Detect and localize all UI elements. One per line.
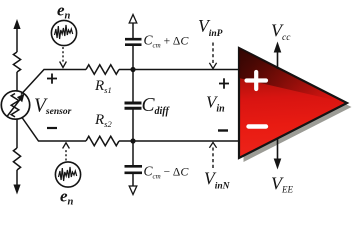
resistor R_s1 <box>86 65 119 75</box>
wire R_s1 to opamp <box>119 69 238 71</box>
svg-text:en: en <box>57 1 71 22</box>
op-amp top bevel shading <box>239 48 347 103</box>
sensor diagonal arrow <box>7 98 22 117</box>
svg-text:VinN: VinN <box>204 169 231 192</box>
svg-text:Ccm + ΔC: Ccm + ΔC <box>144 33 190 50</box>
noise source top circle <box>51 20 76 45</box>
center rail between C_diff and bottom cap <box>132 110 134 166</box>
op-amp U1 red triangle <box>239 48 347 158</box>
svg-text:Rs2: Rs2 <box>94 112 112 129</box>
op-amp shadow <box>244 53 352 163</box>
capacitor C_cm+dC top <box>125 38 142 41</box>
resistor R_s2 <box>86 136 119 146</box>
wire R_s2 to opamp <box>119 140 238 142</box>
white plus on op-amp <box>247 72 267 89</box>
center rail between top cap and C_diff <box>132 46 134 102</box>
noise waveform top <box>55 25 73 39</box>
center rail top segment <box>132 23 134 39</box>
label noise plus <box>47 74 57 84</box>
svg-text:en: en <box>60 187 74 206</box>
svg-text:Cdiff: Cdiff <box>142 95 171 117</box>
center rail bottom segment <box>132 174 134 187</box>
sensor internal zigzag <box>11 94 19 117</box>
svg-text:Vcc: Vcc <box>271 21 291 44</box>
svg-text:Vin: Vin <box>206 93 225 115</box>
capacitor C_cm-dC bottom <box>125 165 143 168</box>
noise waveform bottom <box>59 167 77 181</box>
node junction top <box>130 67 135 72</box>
white minus on op-amp <box>249 124 267 128</box>
sensor circle V_sensor <box>1 91 29 119</box>
label noise minus <box>47 127 57 129</box>
wire to bottom arrow <box>16 170 18 185</box>
label input minus <box>218 129 228 131</box>
dashed arrow V_inN <box>212 148 214 169</box>
resistor left-top vertical zigzag <box>13 52 20 72</box>
arrow down at bottom of left rail <box>13 185 20 195</box>
wire left rail top segment <box>16 28 18 52</box>
dashed arrow V_inP <box>212 43 214 64</box>
capacitor C_diff <box>125 102 142 105</box>
node junction bottom <box>130 138 135 143</box>
svg-text:Vsensor: Vsensor <box>34 96 72 118</box>
arrow Vee <box>277 138 279 159</box>
wire diagonal sensor to plus rail <box>21 70 86 95</box>
wire rail to sensor <box>16 72 18 91</box>
svg-text:VEE: VEE <box>271 174 293 195</box>
wire left rail below sensor <box>16 119 18 148</box>
arrow Vcc <box>274 42 282 170</box>
svg-text:VinP: VinP <box>198 16 223 39</box>
open arrow down center rail <box>129 186 137 195</box>
dashed arrow from bottom noise to wire <box>65 148 67 161</box>
svg-text:Rs1: Rs1 <box>94 78 112 95</box>
dashed arrow from top noise to wire <box>62 47 64 62</box>
wire diagonal sensor to minus rail <box>22 118 86 142</box>
label input plus <box>219 78 229 88</box>
noise source bottom circle <box>55 162 80 187</box>
open arrow up center rail <box>129 15 137 24</box>
svg-text:Ccm − ΔC: Ccm − ΔC <box>144 164 190 181</box>
resistor left-bottom vertical zigzag <box>13 148 20 170</box>
arrow up at top of left rail <box>13 19 20 29</box>
